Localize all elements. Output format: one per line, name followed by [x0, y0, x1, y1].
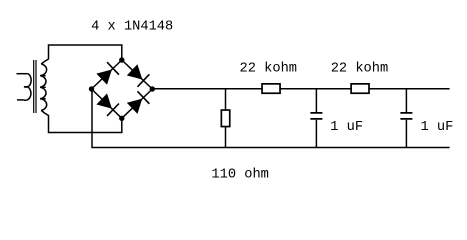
node dot bridge bottom — [119, 116, 124, 121]
resistor R2 22 kohm body — [262, 84, 280, 93]
transformer T1 core — [34, 60, 36, 113]
svg-text:1 uF: 1 uF — [330, 120, 363, 135]
capacitor C2 bottom lead — [405, 120, 407, 148]
capacitor C1 top lead — [315, 89, 317, 112]
wire secondary bottom to bridge bottom — [41, 110, 122, 132]
transformer T1 primary lead bottom — [17, 99, 24, 101]
resistor R1 110 ohm body — [221, 110, 229, 127]
svg-text:22 kohm: 22 kohm — [240, 62, 298, 77]
svg-text:4 x 1N4148: 4 x 1N4148 — [91, 20, 173, 35]
bridge edge wire left-bottom — [92, 89, 122, 118]
diode D4 (bottom to right) — [127, 91, 150, 114]
wire bottom rail (- output) — [92, 89, 450, 148]
capacitor C1 bottom lead — [315, 120, 317, 148]
bridge edge wire left-top — [92, 60, 122, 89]
svg-text:1 uF: 1 uF — [421, 120, 454, 135]
diode D3 (left to bottom) — [96, 93, 119, 116]
node dot bridge left — [89, 86, 94, 91]
capacitor C2 top lead — [405, 89, 407, 112]
resistor R3 22 kohm body — [351, 84, 369, 93]
transformer T1 secondary winding — [40, 64, 47, 110]
svg-text:110 ohm: 110 ohm — [211, 167, 269, 182]
wire top rail (+ output) — [152, 88, 449, 90]
resistor R1 110 ohm lead — [225, 89, 227, 148]
bridge edge wire top-right — [122, 60, 153, 89]
transformer T1 primary lead top — [17, 73, 28, 75]
svg-text:22 kohm: 22 kohm — [331, 62, 389, 77]
diode D2 (top to right) — [127, 64, 150, 87]
wire secondary top to bridge top — [41, 45, 122, 64]
transformer T1 primary winding — [24, 74, 31, 101]
node dot bridge top — [119, 57, 124, 62]
capacitor C2 plates — [400, 113, 412, 119]
diode D1 (left to top) — [96, 62, 119, 85]
node dot bridge right — [150, 86, 155, 91]
capacitor C1 plates — [310, 113, 322, 119]
bridge edge wire bottom-right — [122, 89, 153, 118]
